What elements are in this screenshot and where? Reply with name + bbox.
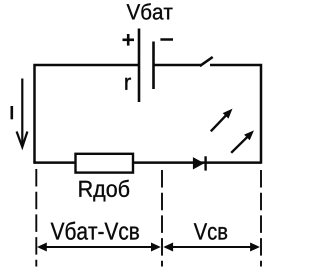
- wire: battery minus plate to switch left contact: [154, 64, 202, 67]
- current arrow I head: [17, 132, 28, 148]
- wire: bottom rail: [33, 161, 261, 164]
- current arrow I shaft: [21, 79, 23, 147]
- battery short plate (-): [152, 42, 155, 90]
- wire: top-left segment and left side (battery plus plate to bottom-left corner): [35, 65, 140, 163]
- LED diode triangle (anode): [193, 157, 204, 169]
- LED light arrow 2 head: [244, 130, 254, 140]
- LED light arrow 1 head: [223, 109, 233, 119]
- LED diode cathode bar: [204, 156, 206, 170]
- extension line middle (dashed): [161, 170, 163, 267]
- switch blade: [200, 57, 213, 66]
- label Vсв: [194, 223, 227, 239]
- extension line left (dashed): [35, 169, 37, 267]
- label Rдоб: [79, 180, 129, 202]
- dimension arrow Vсв (double headed): [163, 243, 260, 252]
- LED light arrow 1 shaft: [211, 115, 227, 131]
- resistor Rдоб body: [76, 154, 134, 173]
- label I: [11, 106, 14, 119]
- label + (plus sign): [123, 34, 135, 46]
- label r (internal resistance): [125, 78, 131, 90]
- label Vбат: [127, 3, 173, 19]
- battery long plate (+): [138, 29, 141, 103]
- label Vбат-Vсв: [51, 222, 139, 240]
- dimension arrow Vбат-Vсв (double headed): [37, 243, 161, 252]
- label − (minus sign): [160, 38, 173, 41]
- wire: switch right contact, top-right corner and right side: [210, 65, 261, 164]
- extension line right (dashed): [260, 170, 262, 267]
- LED light arrow 2 shaft: [231, 137, 247, 153]
